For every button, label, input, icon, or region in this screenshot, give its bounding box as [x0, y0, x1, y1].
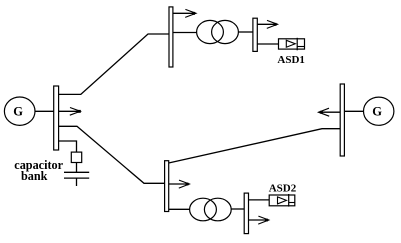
capacitor C1 (capacitor bank) [64, 172, 89, 186]
wire bus B5 to bus B4 [169, 129, 341, 163]
wire T1 to bus B3 [238, 31, 252, 33]
bus B6 (ASD2 bus) [244, 193, 248, 234]
wire breaker to capacitor [76, 163, 78, 173]
arrow A2 (flow out of bus B2) [173, 9, 196, 17]
wire bus B1 to capacitor-bank breaker [59, 141, 77, 152]
wire bus B1 to bus B5 [59, 126, 165, 183]
wire bus B4 to G2 [344, 110, 363, 112]
transformer T1 [197, 20, 239, 43]
bus B1 (left generator bus) [54, 86, 59, 150]
ASD2 drive (rectifier box) [269, 194, 295, 207]
bus B4 (right generator bus) [340, 84, 344, 156]
arrow A1 (flow out of bus B1) [59, 108, 81, 116]
arrow A5 (flow out of bus B5) [169, 180, 190, 188]
generator G2 [364, 97, 394, 125]
svg-text:ASD1: ASD1 [277, 54, 305, 66]
arrow A6 (flow out of bus B6) [249, 216, 269, 224]
transformer T2 [190, 198, 232, 221]
wire T2 to bus B6 [231, 208, 244, 210]
label "capacitor bank" [14, 158, 63, 183]
arrow A4 (flow into bus B4, pointing left) [319, 108, 341, 116]
svg-text:ASD2: ASD2 [269, 182, 297, 194]
arrow A3 (flow out of bus B3) [257, 20, 277, 28]
bus B5 (bottom transformer primary bus) [165, 161, 169, 212]
svg-text:bank: bank [21, 169, 48, 183]
wire bus B2 to transformer T1 [173, 32, 197, 34]
svg-text:G: G [372, 105, 382, 119]
wire bus B6 to ASD2 [249, 199, 270, 201]
wire bus B1 to bus B2 [59, 34, 169, 94]
bus B3 (ASD1 bus) [253, 18, 257, 51]
wire bus B3 to ASD1 [257, 43, 278, 45]
svg-text:G: G [13, 105, 23, 119]
wire G1 to bus B1 [35, 110, 54, 112]
breaker box of capacitor bank [71, 152, 81, 162]
generator G1 [4, 97, 35, 125]
wire bus B5 to transformer T2 [169, 208, 190, 210]
bus B2 (top transformer primary bus) [169, 7, 173, 67]
ASD1 drive (rectifier box) [279, 38, 305, 51]
